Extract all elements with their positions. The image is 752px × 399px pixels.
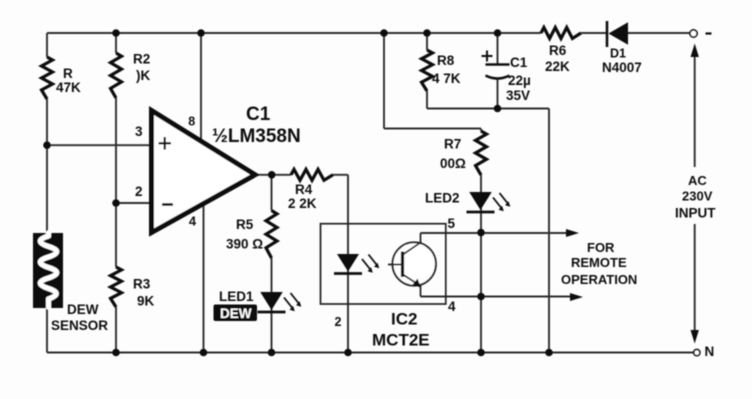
svg-text:N: N — [705, 344, 715, 359]
svg-text:R3: R3 — [133, 277, 151, 292]
svg-text:47K: 47K — [56, 80, 81, 95]
svg-text:C1: C1 — [510, 55, 528, 70]
svg-text:5: 5 — [448, 216, 456, 231]
svg-text:R: R — [63, 66, 73, 81]
svg-text:9K: 9K — [137, 294, 155, 309]
svg-text:MCT2E: MCT2E — [372, 331, 430, 350]
svg-text:R7: R7 — [444, 137, 461, 152]
svg-text:LED1: LED1 — [219, 289, 254, 304]
svg-text:SENSOR: SENSOR — [51, 318, 108, 333]
svg-text:35V: 35V — [506, 88, 530, 103]
svg-text:LED2: LED2 — [425, 191, 460, 206]
svg-text:4: 4 — [448, 299, 456, 314]
svg-text:22K: 22K — [545, 59, 570, 74]
svg-text:AC: AC — [688, 173, 707, 188]
svg-text:IC2: IC2 — [391, 310, 417, 329]
svg-text:½LM358N: ½LM358N — [212, 126, 301, 147]
svg-text:3: 3 — [135, 124, 143, 139]
svg-text:2: 2 — [135, 184, 143, 199]
svg-text:FOR: FOR — [587, 240, 615, 255]
svg-text:)K: )K — [136, 68, 150, 83]
svg-text:R2: R2 — [133, 52, 150, 67]
svg-text:R4: R4 — [295, 182, 313, 197]
svg-text:OPERATION: OPERATION — [561, 272, 637, 287]
svg-text:REMOTE: REMOTE — [571, 255, 627, 270]
svg-text:2 2K: 2 2K — [288, 196, 317, 211]
svg-text:4 7K: 4 7K — [432, 71, 461, 86]
svg-text:2: 2 — [335, 315, 342, 329]
svg-text:DEW: DEW — [67, 302, 99, 317]
svg-text:4: 4 — [189, 214, 197, 229]
svg-text:00Ω: 00Ω — [440, 156, 466, 171]
svg-text:R5: R5 — [236, 217, 254, 232]
svg-text:8: 8 — [188, 114, 195, 128]
svg-text:N4007: N4007 — [602, 60, 642, 75]
svg-text:D1: D1 — [610, 47, 626, 61]
svg-text:C1: C1 — [246, 104, 271, 125]
svg-text:R6: R6 — [549, 43, 567, 58]
svg-text:22µ: 22µ — [508, 73, 531, 88]
svg-text:DEW: DEW — [220, 306, 252, 321]
svg-text:R8: R8 — [437, 53, 455, 68]
svg-text:INPUT: INPUT — [675, 206, 716, 221]
svg-text:230V: 230V — [682, 189, 713, 204]
svg-text:390 Ω: 390 Ω — [226, 237, 263, 252]
